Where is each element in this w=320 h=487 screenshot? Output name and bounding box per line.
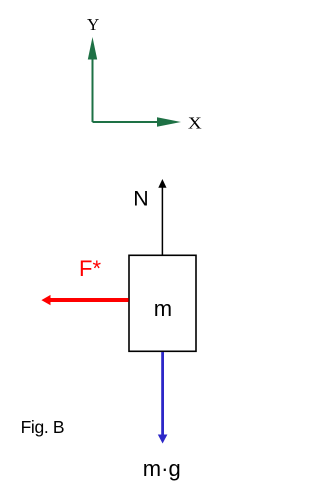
svg-text:N: N xyxy=(133,187,148,211)
X axis arrow xyxy=(93,117,182,127)
svg-text:m·g: m·g xyxy=(143,456,181,481)
svg-text:Y: Y xyxy=(87,15,99,34)
svg-text:Fig. B: Fig. B xyxy=(21,417,65,437)
svg-text:F*: F* xyxy=(79,256,101,281)
mass box xyxy=(129,255,196,351)
weight arrow m·g xyxy=(158,352,168,444)
svg-text:X: X xyxy=(188,113,202,132)
applied force arrow F* xyxy=(41,295,128,305)
Y axis arrow xyxy=(88,37,97,122)
svg-text:m: m xyxy=(154,296,172,321)
normal force arrow N xyxy=(158,179,166,255)
